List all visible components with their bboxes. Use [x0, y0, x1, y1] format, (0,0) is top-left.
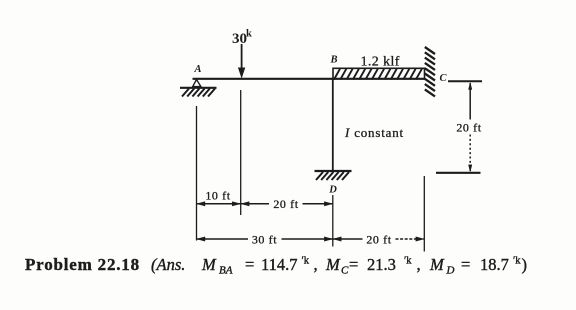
wall support at C: hatching [425, 47, 435, 96]
right dimension 20 ft: lower dotted line with down arrow [469, 135, 471, 172]
right dimension: bottom reference line [436, 172, 481, 174]
pin support at A: ground hatching [182, 89, 215, 97]
svg-text:=: = [349, 255, 358, 274]
svg-text:20 ft: 20 ft [273, 197, 298, 211]
svg-text:1.2 klf: 1.2 klf [361, 55, 400, 70]
distributed load 1.2 klf: outline [333, 68, 425, 80]
svg-text:20 ft: 20 ft [366, 233, 391, 247]
svg-text:21.3: 21.3 [367, 255, 396, 274]
extension line below load point [240, 90, 242, 215]
svg-text:=: = [245, 255, 254, 274]
point load 30k: arrow head [239, 68, 245, 77]
svg-text:M: M [325, 255, 341, 274]
svg-text:BA: BA [219, 265, 233, 277]
svg-text:A: A [193, 64, 201, 75]
svg-text:′k: ′k [513, 256, 521, 267]
svg-text:I constant: I constant [344, 125, 404, 140]
extension line below C wall [423, 176, 425, 252]
dimension row 1: 20 ft segment [241, 203, 269, 205]
svg-text:Problem 22.18: Problem 22.18 [25, 255, 140, 274]
svg-text:D: D [446, 265, 455, 277]
pin support at A: ground line [180, 87, 217, 89]
svg-text:114.7: 114.7 [261, 255, 298, 274]
svg-text:′k: ′k [302, 256, 310, 267]
caption: Problem 22.18 (Ans. ...) [25, 255, 527, 277]
svg-text:18.7: 18.7 [480, 255, 509, 274]
fixed support at D: ground line [315, 170, 352, 172]
extension line below D [332, 195, 334, 247]
right dimension: top reference line [448, 80, 482, 82]
svg-text:C: C [341, 265, 349, 277]
fixed support at D: ground hatching [316, 172, 349, 180]
pin support at A: triangle [193, 80, 201, 87]
distributed load 1.2 klf: hatching [334, 69, 422, 80]
dimension row 1: 10 ft segment [197, 203, 241, 205]
svg-text:C: C [439, 73, 447, 84]
svg-text:,: , [417, 255, 421, 274]
column B-D [332, 79, 334, 171]
svg-text:(Ans.: (Ans. [151, 255, 185, 274]
svg-text:B: B [329, 55, 337, 66]
svg-text:′k: ′k [404, 256, 412, 267]
svg-text:M: M [201, 255, 217, 274]
right dimension 20 ft: upper line with up arrow [469, 83, 471, 120]
point load 30k: arrow shaft [241, 44, 243, 69]
svg-text:k: k [246, 29, 252, 40]
svg-text:30 ft: 30 ft [252, 233, 277, 247]
svg-text:10 ft: 10 ft [205, 189, 230, 203]
svg-text:=: = [461, 255, 470, 274]
svg-text:,: , [314, 255, 318, 274]
svg-text:30: 30 [232, 31, 247, 47]
svg-text:20 ft: 20 ft [456, 121, 481, 135]
svg-text:D: D [328, 185, 337, 196]
dimension row 2: 20 ft segment [333, 238, 363, 240]
svg-text:): ) [522, 255, 528, 274]
svg-text:M: M [429, 255, 445, 274]
extension line below A [196, 106, 198, 241]
beam A-C [193, 78, 425, 80]
dimension row 2: 30 ft segment [197, 238, 249, 240]
